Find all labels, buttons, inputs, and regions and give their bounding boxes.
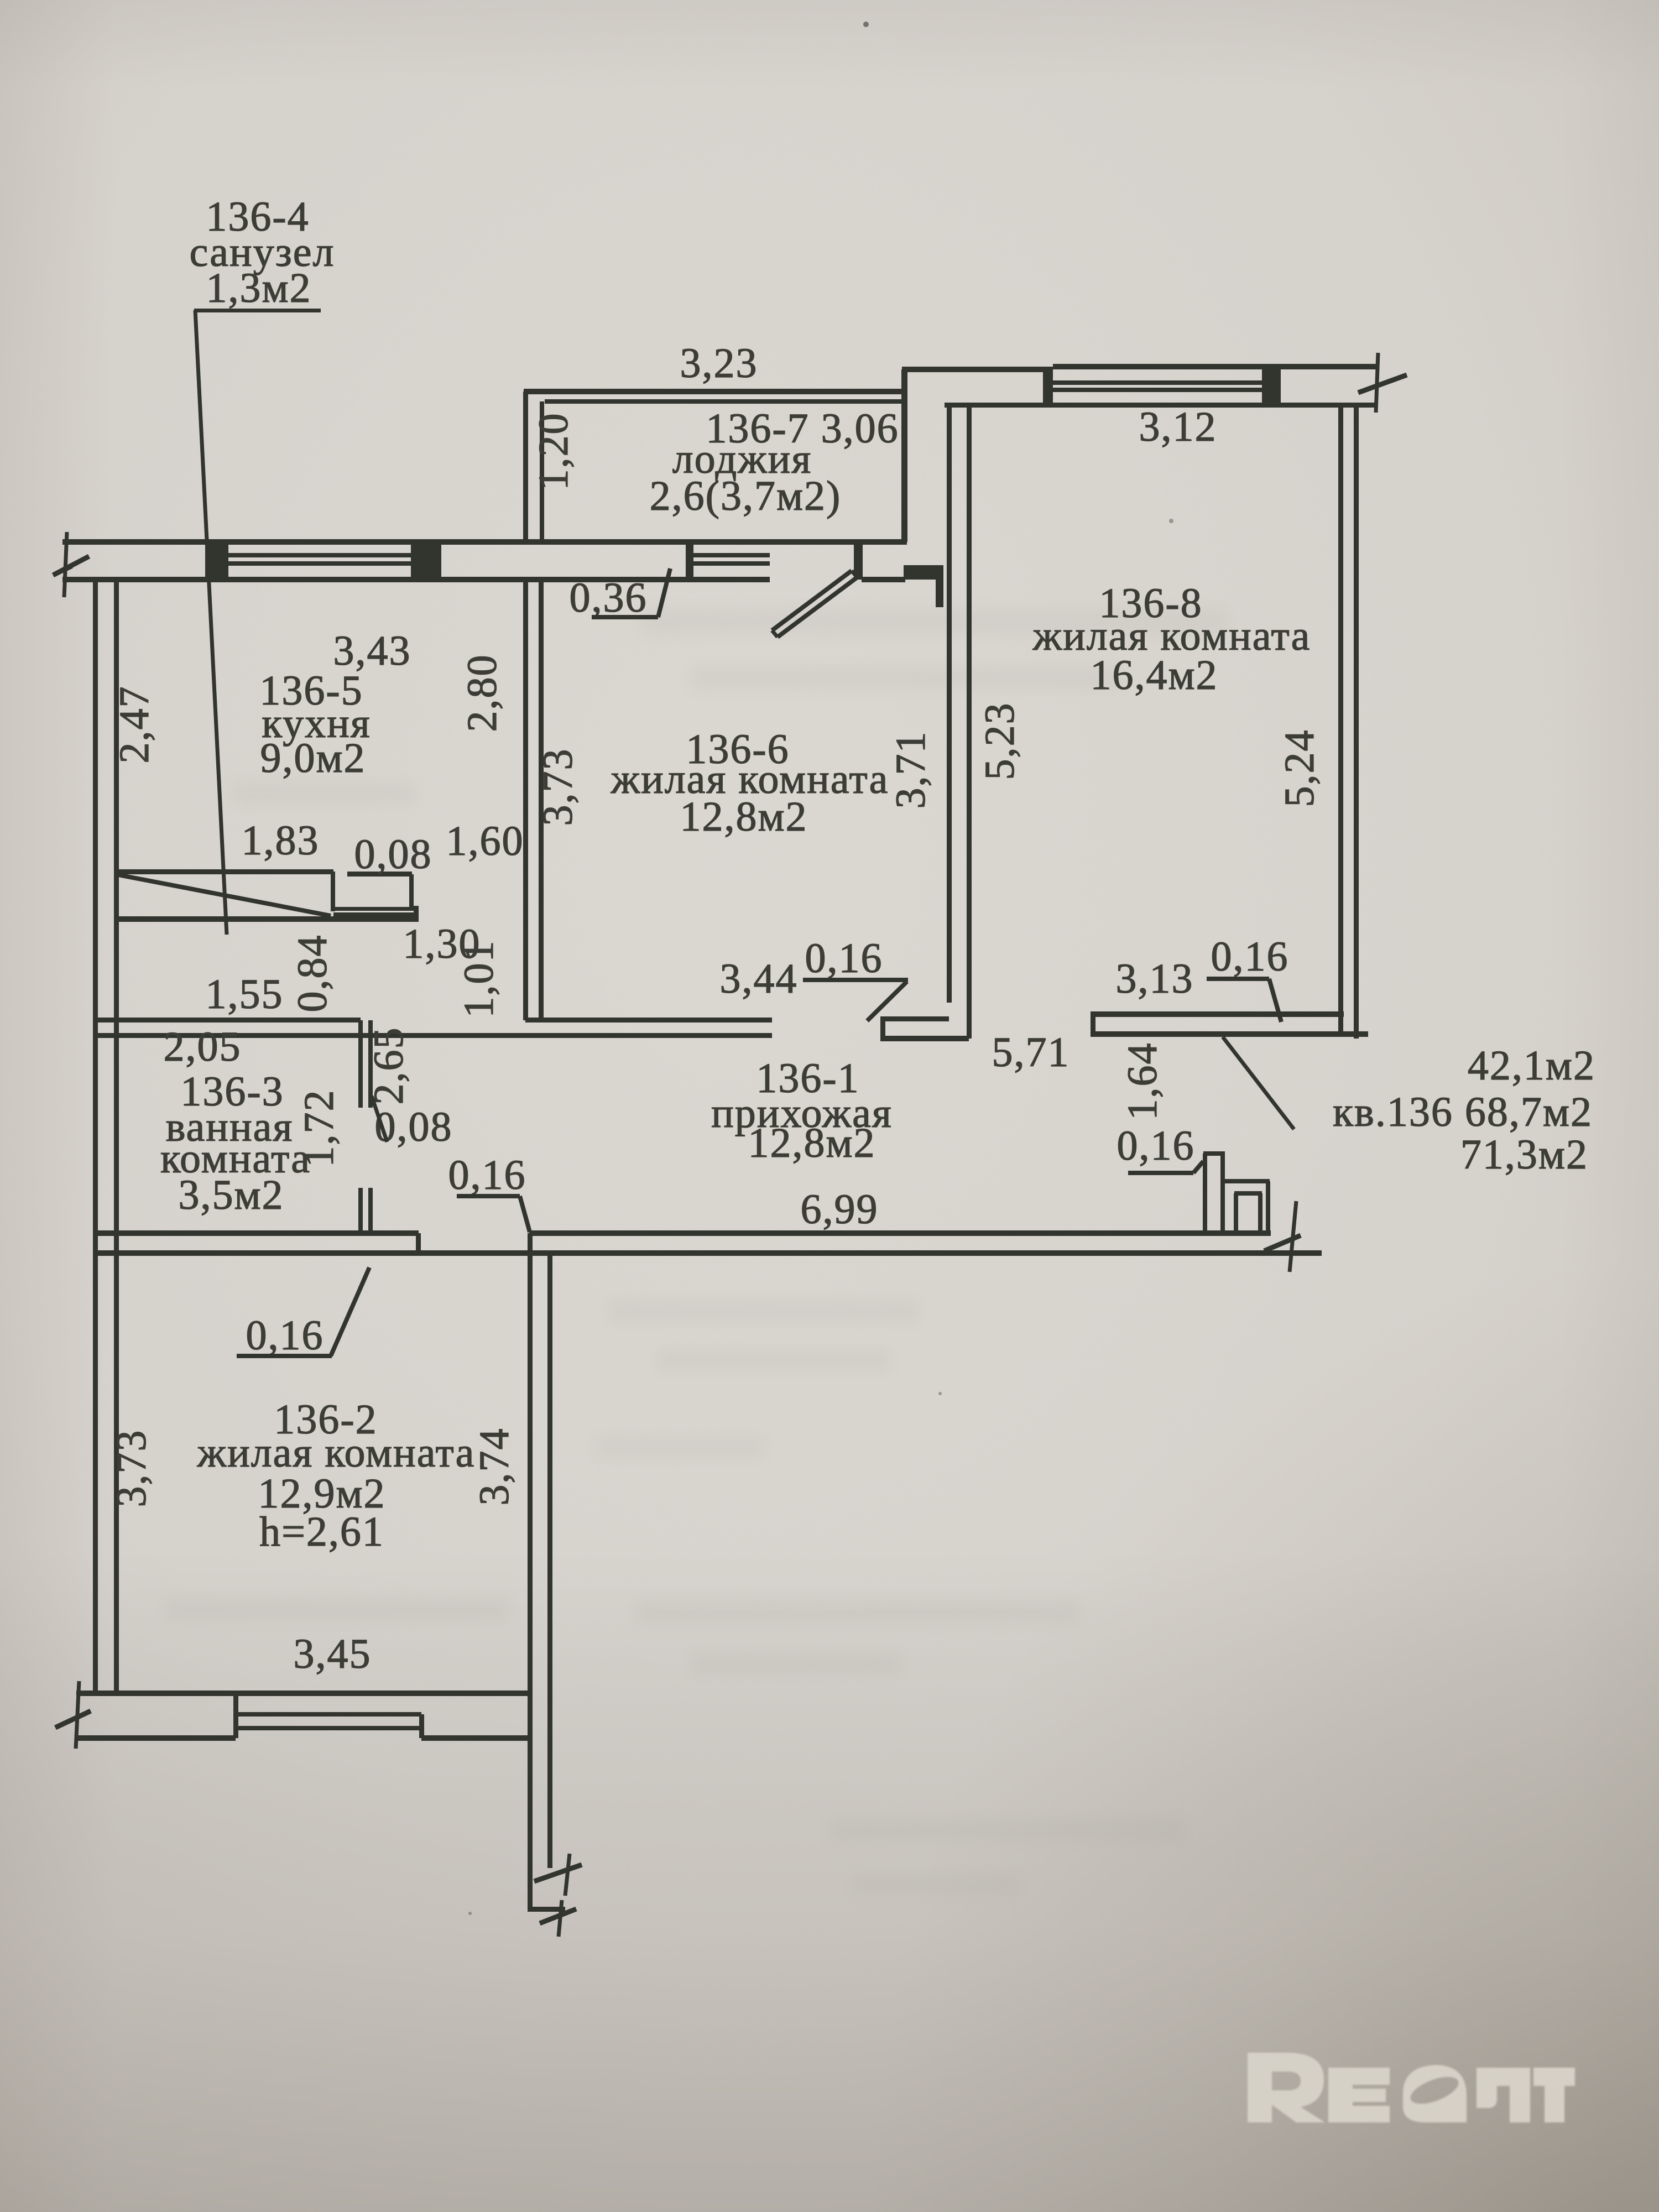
136-2 bottom wall left break bbox=[55, 1681, 91, 1749]
svg-text:2,65: 2,65 bbox=[366, 1027, 412, 1105]
svg-text:0,16: 0,16 bbox=[1211, 933, 1289, 980]
dim 3,12 bbox=[1139, 404, 1217, 450]
svg-text:3,74: 3,74 bbox=[471, 1428, 518, 1506]
136-2 bottom wall left pier bbox=[76, 1693, 238, 1741]
136-8 window glazing bbox=[1053, 380, 1262, 392]
136-2 bottom wall right pier bbox=[419, 1714, 530, 1741]
svg-text:кв.136 68,7м2: кв.136 68,7м2 bbox=[1333, 1089, 1593, 1135]
label prikhozhaya bbox=[711, 1090, 893, 1136]
entrance door leaf inner bbox=[1234, 1191, 1262, 1233]
label zhilaya komnata 136-2 bbox=[197, 1430, 476, 1476]
dim 3,23 bbox=[680, 340, 758, 387]
door bar left cap bbox=[880, 1019, 885, 1039]
svg-text:3,45: 3,45 bbox=[294, 1631, 372, 1677]
doorway cap to 136-2 bbox=[416, 1233, 421, 1253]
136-2 right wall bottom break bbox=[540, 1900, 576, 1937]
svg-text:2,47: 2,47 bbox=[111, 686, 158, 764]
label 136-6 bbox=[686, 726, 789, 773]
dim 0,16 at 136-2 door bbox=[237, 1267, 369, 1359]
svg-text:0,36: 0,36 bbox=[570, 575, 648, 621]
label 12,8m2 hall bbox=[748, 1120, 875, 1166]
dim 0,08 kitchen bbox=[354, 831, 432, 878]
WC cupboard right cap bbox=[331, 872, 335, 911]
bathroom right wall lower bbox=[358, 1188, 373, 1233]
136-8 bottom wall bottom line bbox=[1091, 1031, 1368, 1037]
136-2 right wall outer line bbox=[547, 1253, 552, 1868]
136-8 bottom wall left cap bbox=[1091, 1014, 1095, 1034]
svg-text:3,12: 3,12 bbox=[1139, 404, 1217, 450]
136-8 bottom wall top line bbox=[1091, 1011, 1344, 1017]
dim 3,45 bbox=[294, 1631, 372, 1677]
svg-text:3,44: 3,44 bbox=[720, 956, 798, 1002]
loggia right wall bbox=[901, 369, 907, 542]
sanuzel label underline bbox=[194, 309, 321, 312]
svg-text:0,08: 0,08 bbox=[375, 1104, 453, 1150]
136-8 window jamb left bbox=[1043, 367, 1053, 408]
svg-text:1,01: 1,01 bbox=[456, 940, 502, 1018]
136-8 top wall outer line bbox=[1053, 364, 1377, 369]
svg-text:42,1м2: 42,1м2 bbox=[1468, 1042, 1595, 1089]
svg-text:5,71: 5,71 bbox=[992, 1029, 1070, 1076]
svg-text:12,8м2: 12,8м2 bbox=[680, 794, 807, 840]
dim 1,20 bbox=[530, 413, 577, 491]
svg-text:5,24: 5,24 bbox=[1276, 729, 1323, 807]
dim 1,55 bbox=[206, 971, 284, 1018]
svg-text:1,20: 1,20 bbox=[530, 413, 577, 491]
dust specks bbox=[468, 22, 1173, 1915]
svg-text:2,05: 2,05 bbox=[164, 1024, 242, 1070]
svg-text:2,80: 2,80 bbox=[459, 654, 505, 732]
svg-text:3,23: 3,23 bbox=[680, 340, 758, 387]
label 136-8 bbox=[1099, 580, 1202, 627]
dim 6,99 bbox=[801, 1186, 879, 1233]
left exterior wall bbox=[93, 580, 119, 1695]
svg-text:2,6(3,7м2): 2,6(3,7м2) bbox=[650, 473, 842, 519]
136-2 right wall bottom stub bbox=[528, 1907, 565, 1912]
svg-text:3,73: 3,73 bbox=[108, 1430, 155, 1507]
nook double lines bbox=[333, 907, 416, 916]
nook end cap bbox=[414, 906, 419, 921]
exterior north wall inner line left bbox=[62, 577, 770, 582]
dim 2,05 bbox=[164, 1024, 242, 1070]
label kukhnya bbox=[262, 700, 371, 747]
leader line from sanuzel label bbox=[195, 310, 227, 935]
136-2 bottom window glazing bbox=[236, 1712, 421, 1730]
dim 2,47 bbox=[111, 686, 158, 764]
label 2,6(3,7m2) bbox=[650, 473, 842, 519]
svg-text:9,0м2: 9,0м2 bbox=[260, 735, 366, 781]
loggia top window outer line bbox=[524, 389, 907, 394]
dim 3,44 bbox=[720, 956, 798, 1002]
nook bottom line bbox=[117, 916, 419, 922]
136-8 top right corner break bbox=[1358, 353, 1407, 413]
svg-text:1,60: 1,60 bbox=[446, 818, 524, 864]
svg-text:12,8м2: 12,8м2 bbox=[748, 1120, 875, 1166]
label 136-5 bbox=[259, 667, 363, 714]
step wall vertical bar bbox=[936, 580, 943, 607]
area 71,3m2 bbox=[1460, 1131, 1588, 1178]
label 12,8m2 136-6 bbox=[680, 794, 807, 840]
label zhilaya komnata 136-6 bbox=[611, 756, 889, 802]
svg-text:1,64: 1,64 bbox=[1119, 1042, 1166, 1120]
area kv136 68,7m2 bbox=[1333, 1089, 1593, 1135]
label 1,3m2 bbox=[206, 265, 311, 311]
svg-text:1,3м2: 1,3м2 bbox=[206, 265, 311, 311]
label 12,9m2 bbox=[258, 1470, 385, 1517]
wall kitchen and 136-6 bbox=[523, 580, 544, 1020]
dim 1,30 bbox=[403, 921, 481, 967]
dim 1,83 bbox=[242, 817, 320, 864]
136-8 right wall bbox=[1338, 405, 1359, 1039]
dim 1,64 bbox=[1119, 1042, 1166, 1120]
136-2 bottom wall inner line bbox=[76, 1691, 530, 1696]
hall bottom wall top line left bbox=[95, 1230, 419, 1236]
bathroom top wall upper line bbox=[95, 1018, 361, 1022]
svg-text:3,73: 3,73 bbox=[535, 748, 581, 826]
kitchen window pier left bbox=[205, 542, 228, 580]
label sanuzel bbox=[190, 229, 335, 275]
label 136-7 3,06 bbox=[706, 405, 899, 452]
leader to area text bbox=[1223, 1037, 1294, 1129]
dim 3,43 bbox=[333, 628, 411, 674]
dim 0,16 entrance bbox=[1117, 1123, 1204, 1175]
balcony door jamb bar bbox=[854, 542, 863, 580]
WC diagonal bbox=[118, 875, 331, 916]
dim 1,60 bbox=[446, 818, 524, 864]
136-8 top wall inner line bbox=[945, 403, 1377, 408]
dim 5,24 bbox=[1276, 729, 1323, 807]
dim 2,80 bbox=[459, 654, 505, 732]
label 136-1 bbox=[756, 1055, 859, 1102]
dim 3,71 bbox=[888, 731, 934, 809]
hall bottom wall top line right bbox=[529, 1230, 1271, 1236]
dim 0,08 bathroom bbox=[372, 1096, 453, 1150]
door bar 136-6 to hall top line bbox=[880, 1016, 949, 1021]
svg-text:0,08: 0,08 bbox=[354, 831, 432, 878]
step wall loggia to 136-8 horizontal bar bbox=[904, 565, 943, 580]
136-8 window jamb right bbox=[1262, 367, 1281, 408]
svg-text:1,55: 1,55 bbox=[206, 971, 284, 1018]
nook corner vertical bbox=[409, 874, 414, 910]
loggia top window inner line bbox=[545, 399, 902, 404]
label 3,5m2 bbox=[178, 1172, 284, 1218]
svg-text:16,4м2: 16,4м2 bbox=[1090, 652, 1218, 698]
svg-text:3,5м2: 3,5м2 bbox=[178, 1172, 284, 1218]
room 136-6 window jamb bbox=[686, 543, 693, 580]
area 42,1m2 bbox=[1468, 1042, 1595, 1089]
dim 1,01 bbox=[456, 940, 502, 1018]
watermark Realt bbox=[1248, 2053, 1575, 2122]
door bar 136-6 to hall bottom line bbox=[880, 1036, 969, 1041]
svg-text:71,3м2: 71,3м2 bbox=[1460, 1131, 1588, 1178]
dim 0,84 bbox=[289, 935, 336, 1013]
svg-text:6,99: 6,99 bbox=[801, 1186, 879, 1233]
dim 3,73 136-6 bbox=[535, 748, 581, 826]
label komnata bbox=[160, 1135, 311, 1182]
dim 3,13 bbox=[1116, 956, 1194, 1002]
svg-text:0,16: 0,16 bbox=[448, 1152, 526, 1198]
svg-text:3,71: 3,71 bbox=[888, 731, 934, 809]
svg-text:0,16: 0,16 bbox=[246, 1312, 324, 1359]
label 136-3 bbox=[180, 1068, 284, 1115]
balcony door leaf bbox=[772, 571, 857, 637]
hall bottom wall right break bbox=[1264, 1201, 1301, 1272]
exterior north wall inner line right bbox=[862, 577, 905, 582]
136-2 right wall inner line bbox=[528, 1233, 533, 1909]
kitchen window glazing bbox=[228, 553, 411, 566]
label 9,0m2 bbox=[260, 735, 366, 781]
svg-text:h=2,61: h=2,61 bbox=[259, 1509, 384, 1555]
label vannaya bbox=[166, 1104, 294, 1150]
136-6 bottom wall upper line bbox=[525, 1018, 772, 1022]
wall 136-6 and 136-8 (hall side) bbox=[947, 405, 972, 1039]
kitchen window pier right bbox=[411, 542, 441, 580]
dim 5,23 bbox=[977, 702, 1023, 780]
dim 1,72 bbox=[296, 1089, 342, 1167]
dim 5,71 bbox=[992, 1029, 1070, 1076]
dim 2,65 bbox=[366, 1027, 412, 1105]
svg-text:0,16: 0,16 bbox=[1117, 1123, 1195, 1169]
kitchen lower wall line bbox=[117, 869, 333, 874]
wall ledge loggia to 136-8 bbox=[902, 367, 1048, 372]
entrance door leaf outer bbox=[1223, 1179, 1270, 1233]
svg-text:1,72: 1,72 bbox=[296, 1089, 342, 1167]
label 16,4m2 bbox=[1090, 652, 1218, 698]
label 136-2 bbox=[274, 1396, 377, 1443]
hall bottom wall bottom line bbox=[95, 1250, 1322, 1256]
dim 0,16 at 136-8 door bbox=[1207, 933, 1289, 1022]
dim 0,16 hall left bbox=[448, 1152, 530, 1232]
svg-text:5,23: 5,23 bbox=[977, 702, 1023, 780]
label lodzhiya bbox=[672, 436, 812, 482]
dim 0,36 bbox=[570, 568, 671, 621]
nook upper line bbox=[347, 872, 412, 877]
faint bleed-through of reverse page bbox=[166, 608, 1228, 1893]
room 136-6 window glazing bbox=[693, 553, 770, 566]
label h=2,61 bbox=[259, 1509, 384, 1555]
136-2 right wall outer break bbox=[534, 1854, 582, 1896]
long middle wall lower line bbox=[95, 1033, 772, 1038]
entrance door jamb bbox=[1203, 1151, 1225, 1233]
dim 3,74 bbox=[471, 1428, 518, 1506]
dim 0,16 at 136-6 door bbox=[803, 935, 908, 1021]
svg-text:1,83: 1,83 bbox=[242, 817, 320, 864]
bathroom right wall upper bbox=[358, 1020, 373, 1108]
svg-text:3,13: 3,13 bbox=[1116, 956, 1194, 1002]
label 136-4 bbox=[206, 194, 309, 240]
svg-text:0,16: 0,16 bbox=[805, 935, 883, 982]
svg-text:0,84: 0,84 bbox=[289, 935, 336, 1013]
loggia left wall bbox=[523, 392, 544, 542]
exterior north wall outer line bbox=[62, 539, 907, 545]
left wall break symbol bbox=[53, 532, 89, 597]
dim 3,73 136-2 bbox=[108, 1430, 155, 1507]
label zhilaya komnata 136-8 bbox=[1032, 613, 1311, 659]
svg-text:жилая комната: жилая комната bbox=[197, 1430, 476, 1476]
